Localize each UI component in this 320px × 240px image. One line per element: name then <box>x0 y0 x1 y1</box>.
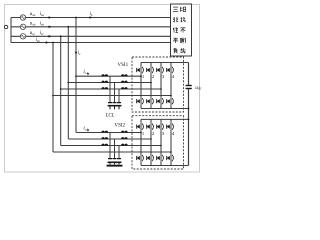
load text row 性不 <box>173 28 178 33</box>
load text row 三相 <box>173 7 178 12</box>
wire filter cap branch 1 <box>109 76 111 102</box>
wire VSI1 input b <box>68 82 151 84</box>
wire VSI1 leg2 vertical <box>150 63 152 67</box>
svg-text:ic1: ic1 <box>83 70 88 75</box>
wire VSI2 leg2 vertical <box>150 119 152 122</box>
wire VSI1 input n <box>53 95 171 97</box>
load text row 非线 <box>173 17 178 22</box>
junction VSI1 leg1 midpoint <box>140 75 142 77</box>
wire VSI1 leg1 vertical <box>140 63 142 67</box>
inductor VSI2 a inverter-side <box>121 131 124 133</box>
current arrow i_c <box>75 52 78 55</box>
inductor VSI1 c grid-side <box>101 87 104 89</box>
capacitor filter C1 <box>108 102 112 103</box>
wire O neutral bus vertical <box>10 18 12 43</box>
wire tap phase n vertical <box>52 43 54 153</box>
svg-text:isc: isc <box>40 31 45 36</box>
junction VSI1 leg2 midpoint <box>150 82 152 84</box>
AC source u_sa <box>20 15 25 20</box>
inductor VSI2 b inverter-side <box>121 137 124 139</box>
junction DC rail / VSI1 DC- <box>188 108 190 110</box>
junction tap n / VSI1 line <box>52 95 54 97</box>
junction tap b / VSI1 line <box>67 82 69 84</box>
wire neutral bus <box>11 42 171 44</box>
wire VSI1 leg3 vertical <box>160 63 162 67</box>
IGBT VSI1 leg2 lower <box>150 97 152 105</box>
capacitor filter C1 <box>108 158 112 159</box>
wire VSI2 DC- bus <box>141 165 189 167</box>
wire VSI1 input a <box>76 75 141 77</box>
svg-text:isn: isn <box>36 38 41 43</box>
wire VSI1 leg4 vertical <box>170 63 172 67</box>
junction VSI2 leg4 midpoint <box>170 151 172 153</box>
inductor VSI2 a grid-side <box>101 131 104 133</box>
wire filter cap branch 3 <box>118 89 120 102</box>
junction VSI1 leg4 midpoint <box>170 95 172 97</box>
IGBT VSI2 leg3 lower <box>160 154 162 162</box>
AC source u_sc <box>20 34 25 39</box>
junction tap b / bus <box>67 26 69 28</box>
svg-text:iL: iL <box>90 12 93 17</box>
wire VSI1 input c <box>61 88 161 90</box>
junction tap a / bus <box>75 17 77 19</box>
svg-text:usc: usc <box>30 31 36 36</box>
svg-text:ic: ic <box>78 51 81 56</box>
svg-text:isb: isb <box>40 21 45 26</box>
inductor VSI2 b grid-side <box>101 137 104 139</box>
wire VSI2 DC+ bus <box>141 118 189 120</box>
wire DC rail lower <box>188 89 190 166</box>
svg-text:usb: usb <box>30 21 36 26</box>
junction tap c / bus <box>60 35 62 37</box>
wire phase b bus <box>11 26 171 28</box>
svg-text:VSI2: VSI2 <box>114 122 125 128</box>
IGBT VSI1 leg1 lower <box>140 97 142 105</box>
wire cap common bar 2 <box>107 165 123 167</box>
junction VSI2 leg1 midpoint <box>140 132 142 134</box>
wire VSI1 DC+ bus <box>141 62 189 64</box>
IGBT VSI1 leg4 upper (4) <box>170 66 172 74</box>
IGBT VSI1 leg3 lower <box>160 97 162 105</box>
wire tap phase b vertical <box>67 27 69 139</box>
wire DC rail upper <box>188 63 190 85</box>
wire filter cap branch 2 <box>114 139 116 158</box>
inductor VSI1 a grid-side <box>101 74 104 76</box>
AC source u_sb <box>20 24 25 29</box>
wire VSI2 input b <box>68 138 151 140</box>
junction DC rail / VSI2 DC+ <box>188 119 190 121</box>
wire filter cap branch 1 <box>109 133 111 159</box>
junction VSI1 leg3 midpoint <box>160 88 162 90</box>
wire tap phase c vertical <box>60 36 62 145</box>
IGBT VSI2 leg2 upper (2) <box>150 123 152 131</box>
IGBT VSI2 leg2 lower <box>150 154 152 162</box>
junction VSI2 leg2 midpoint <box>150 138 152 140</box>
junction tap c / VSI1 line <box>60 88 62 90</box>
load: three-phase nonlinear unbalanced load box <box>171 4 192 56</box>
IGBT VSI1 leg3 upper (3) <box>160 66 162 74</box>
svg-text:isa: isa <box>40 12 45 17</box>
capacitor filter C3 <box>117 102 121 103</box>
wire VSI2 leg1 vertical <box>140 119 142 122</box>
wire tap phase a vertical <box>75 18 77 133</box>
IGBT VSI1 leg1 upper (1) <box>140 66 142 74</box>
wire filter cap branch 2 <box>114 83 116 103</box>
wire VSI2 input c <box>61 145 161 147</box>
VSI1 enclosure <box>132 57 184 112</box>
inductor VSI2 c grid-side <box>101 144 104 146</box>
inductor VSI2 c inverter-side <box>121 144 124 146</box>
wire phase a bus <box>11 17 171 19</box>
wire cap common bar <box>108 162 122 164</box>
inductor VSI1 b inverter-side <box>121 81 124 83</box>
load text row 负载 <box>174 48 178 53</box>
junction VSI2 leg3 midpoint <box>160 145 162 147</box>
junction tap a / VSI1 line <box>75 75 77 77</box>
capacitor filter C2 <box>113 158 117 159</box>
wire cap common bar <box>108 105 122 107</box>
wire phase c bus <box>11 35 171 37</box>
VSI2 enclosure <box>132 116 184 169</box>
IGBT VSI1 leg4 lower <box>170 97 172 105</box>
IGBT VSI2 leg3 upper (3) <box>160 123 162 131</box>
IGBT VSI2 leg1 upper (1) <box>140 123 142 131</box>
IGBT VSI2 leg1 lower <box>140 154 142 162</box>
IGBT VSI1 leg2 upper (2) <box>150 66 152 74</box>
junction tap n / bus <box>52 42 54 44</box>
wire filter cap branch 3 <box>118 146 120 159</box>
capacitor filter C3 <box>117 158 121 159</box>
inductor VSI1 b grid-side <box>101 81 104 83</box>
capacitor u_dc <box>186 85 192 86</box>
svg-text:VSI1: VSI1 <box>117 62 128 68</box>
capacitor filter C2 <box>113 102 117 103</box>
wire VSI1 DC- bus <box>141 108 189 110</box>
load text row 平衡 <box>173 38 178 43</box>
svg-text:usa: usa <box>30 12 36 17</box>
wire VSI2 input a <box>76 132 141 134</box>
wire VSI2 leg3 vertical <box>160 119 162 122</box>
wire VSI2 leg4 vertical <box>170 119 172 122</box>
inductor VSI1 a inverter-side <box>121 74 124 76</box>
IGBT VSI2 leg4 upper (4) <box>170 123 172 131</box>
svg-text:ic2: ic2 <box>83 127 88 132</box>
svg-text:LCL: LCL <box>105 113 115 118</box>
node O <box>4 25 7 28</box>
inductor VSI1 c inverter-side <box>121 87 124 89</box>
IGBT VSI2 leg4 lower <box>170 154 172 162</box>
wire VSI2 input n <box>53 151 171 153</box>
